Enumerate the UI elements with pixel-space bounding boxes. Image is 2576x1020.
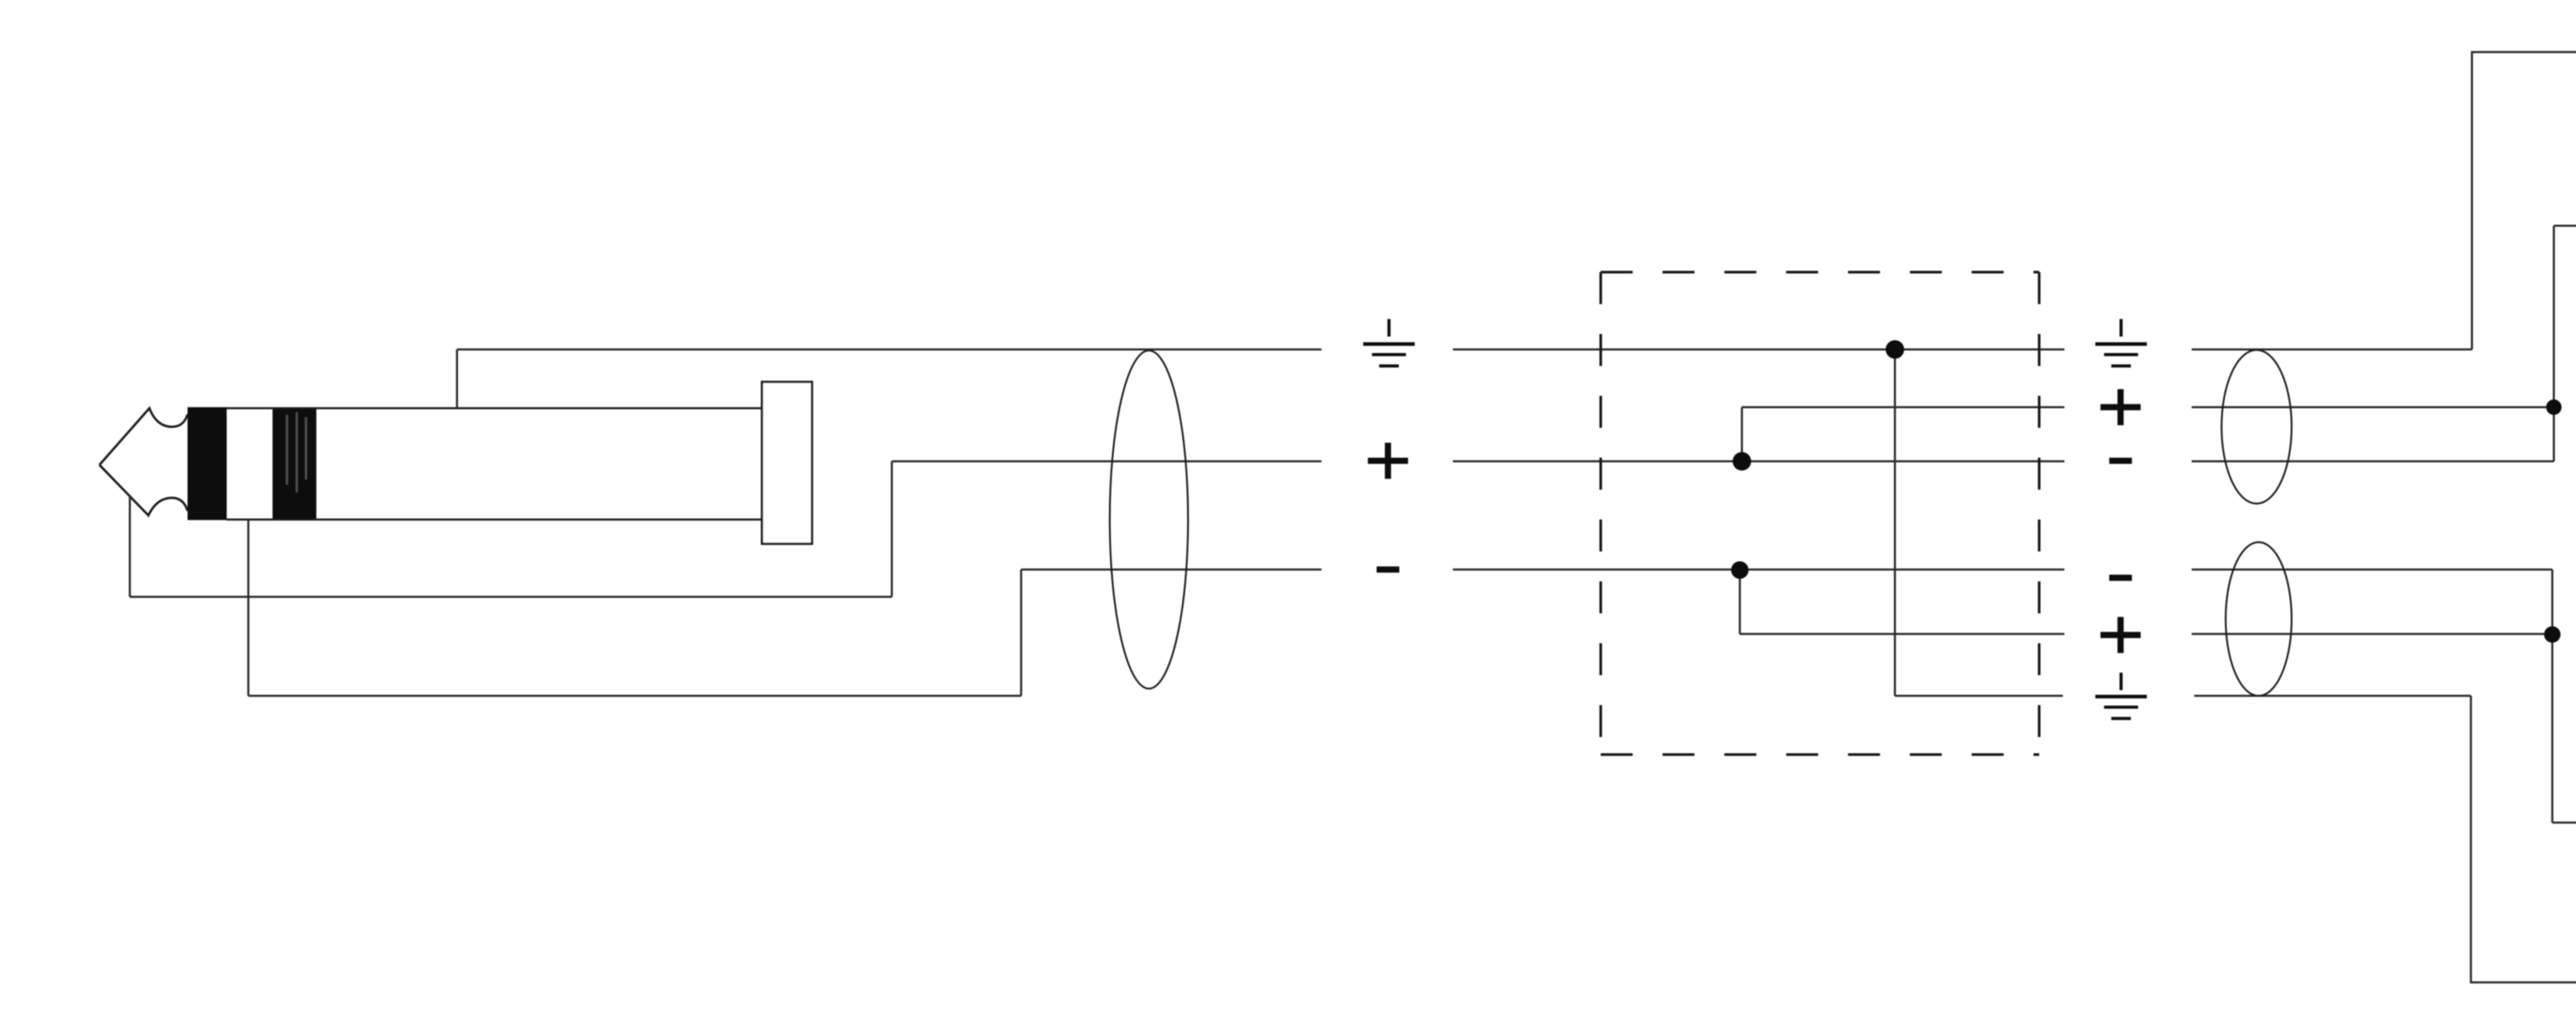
- wire ground horizontal right bottom group: [2194, 695, 2471, 697]
- wire ground horizontal right: [2192, 348, 2472, 350]
- wire minus horizontal middle: [1453, 568, 2064, 571]
- ground symbol left: [1363, 319, 1415, 367]
- wire branch horizontal y790: [1742, 406, 2064, 408]
- plus label right top: [2100, 389, 2141, 425]
- jack plug body top edge: [227, 407, 763, 409]
- jack plug body bottom edge: [227, 519, 763, 521]
- wire ground rise to RCA1 shell: [2472, 52, 2576, 349]
- adapter dashed box bottom edge: [1601, 754, 2039, 756]
- wire ground drop to RCA2 shell: [2471, 696, 2576, 982]
- jack plug ring band texture: [287, 412, 306, 492]
- minus label right bottom: [2109, 575, 2132, 581]
- wire ring vertical drop: [247, 520, 249, 696]
- cable shield ellipse right bottom: [2226, 542, 2292, 696]
- wire RCA1 pin vertical: [2553, 226, 2555, 461]
- adapter dashed box top edge: [1601, 271, 2039, 274]
- wire branch horizontal y1230: [1740, 633, 2064, 635]
- minus label right top: [2109, 458, 2132, 464]
- wire ring rise: [1020, 570, 1022, 696]
- wire branch down inside box: [1739, 570, 1741, 634]
- jack plug J1 tip: [99, 408, 188, 465]
- wire branch up inside box: [1741, 407, 1743, 461]
- jack plug ring contact band: [273, 407, 316, 520]
- wire plus horizontal left: [892, 460, 1321, 462]
- wire tip vertical drop: [129, 496, 131, 597]
- plus label right bottom: [2100, 617, 2141, 653]
- junction dot ground in box: [1886, 340, 1904, 359]
- adapter dashed box left edge: [1600, 272, 1602, 755]
- wire ground horizontal left: [457, 348, 1321, 350]
- cable shield ellipse left: [1110, 350, 1188, 689]
- junction dot plus in box: [1733, 452, 1751, 471]
- ground symbol right top: [2095, 319, 2147, 367]
- wire ground horizontal middle: [1453, 348, 2064, 350]
- minus label left: [1377, 566, 1399, 573]
- wire RCA2 pin vertical: [2551, 570, 2553, 823]
- wire ground horizontal y1350 inside box: [1895, 695, 2063, 697]
- wire tip rise: [891, 461, 893, 597]
- ground symbol right bottom: [2095, 673, 2147, 720]
- wire sleeve-to-ground vertical: [456, 349, 458, 408]
- jack plug J1 tip lower edge: [99, 465, 188, 515]
- wire plus horizontal right bottom group: [2192, 633, 2552, 635]
- plus label left: [1368, 443, 1408, 479]
- wire tip horizontal: [130, 596, 892, 598]
- wire plus horizontal middle: [1453, 460, 2064, 462]
- junction dot plus right top: [2546, 399, 2562, 415]
- wire minus horizontal right top group: [2192, 460, 2554, 462]
- cable shield ellipse right top: [2222, 350, 2292, 504]
- jack plug tip contact band: [188, 407, 227, 520]
- wire minus horizontal right bottom group: [2192, 568, 2552, 571]
- adapter dashed box right edge: [2038, 272, 2041, 755]
- wire minus horizontal left: [1021, 568, 1321, 571]
- junction dot plus right bottom: [2544, 626, 2561, 643]
- wire plus horizontal right top group: [2192, 406, 2554, 408]
- wire ring horizontal: [248, 695, 1021, 697]
- jack plug end cap: [762, 382, 812, 544]
- wire RCA1 pin horizontal: [2554, 225, 2576, 227]
- wire ground vertical inside box: [1894, 349, 1896, 696]
- junction dot minus in box: [1731, 561, 1749, 579]
- wire RCA2 pin horizontal: [2552, 822, 2576, 824]
